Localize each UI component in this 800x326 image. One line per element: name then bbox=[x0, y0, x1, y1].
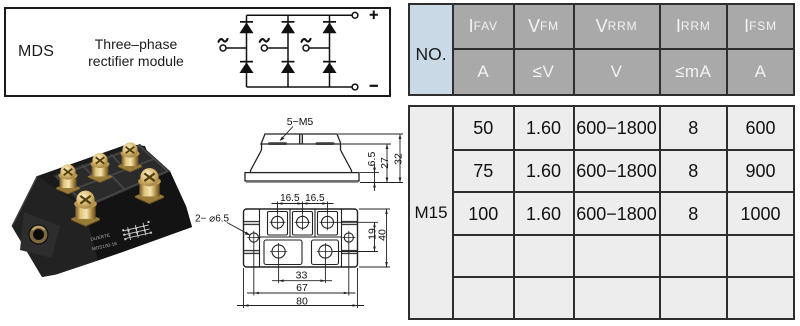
side view screw recess left bbox=[268, 142, 287, 145]
diode D6 bbox=[323, 61, 337, 73]
plan end divider left bbox=[259, 209, 261, 267]
module photo screw back 2 bbox=[88, 153, 113, 183]
module photo mount ring bbox=[29, 225, 49, 245]
plan mid horizontal bbox=[260, 236, 342, 238]
side view body left edge bbox=[261, 144, 263, 150]
ext+dim lines 40 bbox=[359, 209, 390, 267]
wire leg3 bbox=[329, 15, 331, 87]
module photo white print bbox=[90, 221, 152, 252]
terminal - circle bbox=[352, 84, 358, 90]
header table bbox=[408, 3, 795, 96]
svg-text:80: 80 bbox=[296, 295, 308, 307]
module photo flange pocket bbox=[20, 212, 60, 258]
plan hatch right end bbox=[342, 222, 357, 254]
dim line 27 bbox=[386, 144, 388, 183]
label ~ AC3 bbox=[302, 39, 311, 42]
terminal AC3 circle bbox=[303, 45, 309, 51]
svg-text:5−M5: 5−M5 bbox=[287, 116, 314, 128]
diode D3 bbox=[323, 21, 337, 33]
arrows 19 bbox=[373, 222, 376, 227]
row 4 empty bbox=[454, 236, 513, 277]
plan outer rect bbox=[244, 209, 358, 267]
wire AC3 bbox=[309, 47, 330, 49]
arrows 80 bbox=[244, 304, 249, 307]
label ~ AC2 bbox=[260, 39, 269, 42]
arrows 6.5 bbox=[373, 168, 376, 173]
wire bottom rail bbox=[247, 86, 353, 88]
plan hole right bbox=[344, 233, 353, 242]
module photo screw front 2 bbox=[135, 168, 165, 204]
row 5 empty bbox=[454, 278, 513, 318]
plan screws bottom row bbox=[272, 245, 285, 258]
module photo screw back 3 bbox=[118, 142, 143, 172]
ext lines side view right bbox=[338, 134, 403, 183]
cell IRRM bbox=[661, 5, 727, 48]
side view center divider bbox=[300, 134, 303, 144]
svg-text:67: 67 bbox=[296, 282, 308, 294]
row 2 bbox=[454, 151, 513, 192]
svg-text:2− ⌀6.5: 2− ⌀6.5 bbox=[195, 214, 230, 225]
plan screws top row bbox=[272, 216, 284, 228]
ext+dim 33 bbox=[272, 259, 332, 283]
cell IFSM bbox=[728, 5, 793, 48]
module photo front top edge highlight bbox=[84, 171, 170, 208]
ext+dim 67 bbox=[247, 243, 356, 296]
cell IFAV bbox=[454, 5, 513, 48]
dim line 32 bbox=[399, 134, 401, 183]
svg-text:16.5: 16.5 bbox=[280, 193, 300, 204]
plan bottom compartment right bbox=[312, 240, 339, 265]
body table bbox=[408, 105, 795, 320]
arrows 16.5 bbox=[278, 202, 283, 205]
plan hole left bbox=[249, 233, 258, 242]
cell unit leqV bbox=[515, 50, 573, 95]
side view base bottom strip bbox=[246, 181, 358, 183]
cell unit A2 bbox=[728, 50, 793, 95]
plan terminal square 1 bbox=[268, 212, 288, 236]
leader 5-M5 bbox=[281, 127, 294, 141]
terminal + circle bbox=[352, 12, 358, 18]
plan square dividers bbox=[290, 209, 315, 237]
side view base bbox=[245, 173, 359, 181]
side view cap outline bbox=[261, 134, 341, 144]
side view flange slant right bbox=[341, 150, 352, 173]
ext+dim 80 bbox=[237, 268, 364, 308]
svg-text:27: 27 bbox=[379, 157, 391, 169]
arrows 40 bbox=[385, 209, 388, 214]
diode D2 bbox=[281, 21, 295, 33]
dim line 6.5 bbox=[374, 164, 376, 191]
arrows 67 bbox=[254, 292, 259, 295]
diode D4 bbox=[240, 61, 254, 73]
plan hatch left end bbox=[244, 222, 259, 254]
wire AC1 bbox=[226, 47, 247, 49]
plan screw crosses bbox=[270, 214, 336, 230]
plan end divider right bbox=[341, 209, 343, 267]
plan terminal square 2 bbox=[293, 212, 313, 236]
arrows 32 bbox=[399, 134, 402, 139]
terminal AC1 circle bbox=[220, 45, 226, 51]
leader 2-dia6.5 bbox=[227, 223, 250, 235]
ext+dim lines 16.5 bbox=[272, 202, 334, 215]
diode D5 bbox=[281, 61, 295, 73]
diode D1 bbox=[240, 21, 254, 33]
plan terminal square 3 bbox=[318, 212, 338, 236]
ext+dim lines 19 bbox=[333, 222, 378, 251]
label: three-phase rectifier module bbox=[84, 36, 188, 70]
label - bbox=[370, 85, 378, 87]
label MDS bbox=[18, 43, 54, 61]
module photo screw front 1 bbox=[71, 191, 101, 227]
cell unit leqmA bbox=[661, 50, 727, 95]
cell unit V bbox=[575, 50, 659, 95]
title box bbox=[4, 7, 391, 97]
svg-text:6.5: 6.5 bbox=[366, 152, 378, 167]
wire leg2 bbox=[287, 15, 289, 87]
side view screw recess right bbox=[316, 142, 335, 145]
label ~ AC1 bbox=[219, 39, 228, 42]
svg-text:16.5: 16.5 bbox=[305, 193, 325, 204]
module photo flange face bbox=[12, 176, 98, 277]
svg-text:33: 33 bbox=[296, 270, 308, 282]
cell NO. bbox=[410, 5, 452, 94]
module photo flange edge highlight bbox=[12, 176, 37, 227]
row 3 bbox=[454, 193, 513, 234]
plan bottom compartment left bbox=[264, 240, 302, 265]
cell VFM bbox=[515, 5, 573, 48]
wire top rail bbox=[247, 14, 353, 16]
terminal AC2 circle bbox=[261, 45, 267, 51]
wire AC2 bbox=[267, 47, 288, 49]
side view body right edge bbox=[340, 144, 342, 150]
side view flange slant left bbox=[251, 150, 262, 173]
module photo deck ridges bbox=[57, 146, 168, 206]
module photo screw back 1 bbox=[56, 164, 81, 194]
cell M15 bbox=[410, 107, 452, 318]
module photo top deck face bbox=[53, 144, 170, 208]
arrows 33 bbox=[279, 279, 284, 282]
cell unit A bbox=[454, 50, 513, 95]
svg-text:40: 40 bbox=[377, 229, 389, 241]
svg-text:32: 32 bbox=[393, 153, 405, 165]
wire leg1 bbox=[246, 15, 248, 87]
cell VRRM bbox=[575, 5, 659, 48]
label + bbox=[370, 11, 378, 20]
row 1 bbox=[454, 107, 513, 149]
module photo front face bbox=[84, 171, 192, 261]
module photo body silhouette bbox=[12, 144, 192, 277]
plan hole crosshairs bbox=[247, 231, 355, 244]
arrows 27 bbox=[386, 144, 389, 149]
